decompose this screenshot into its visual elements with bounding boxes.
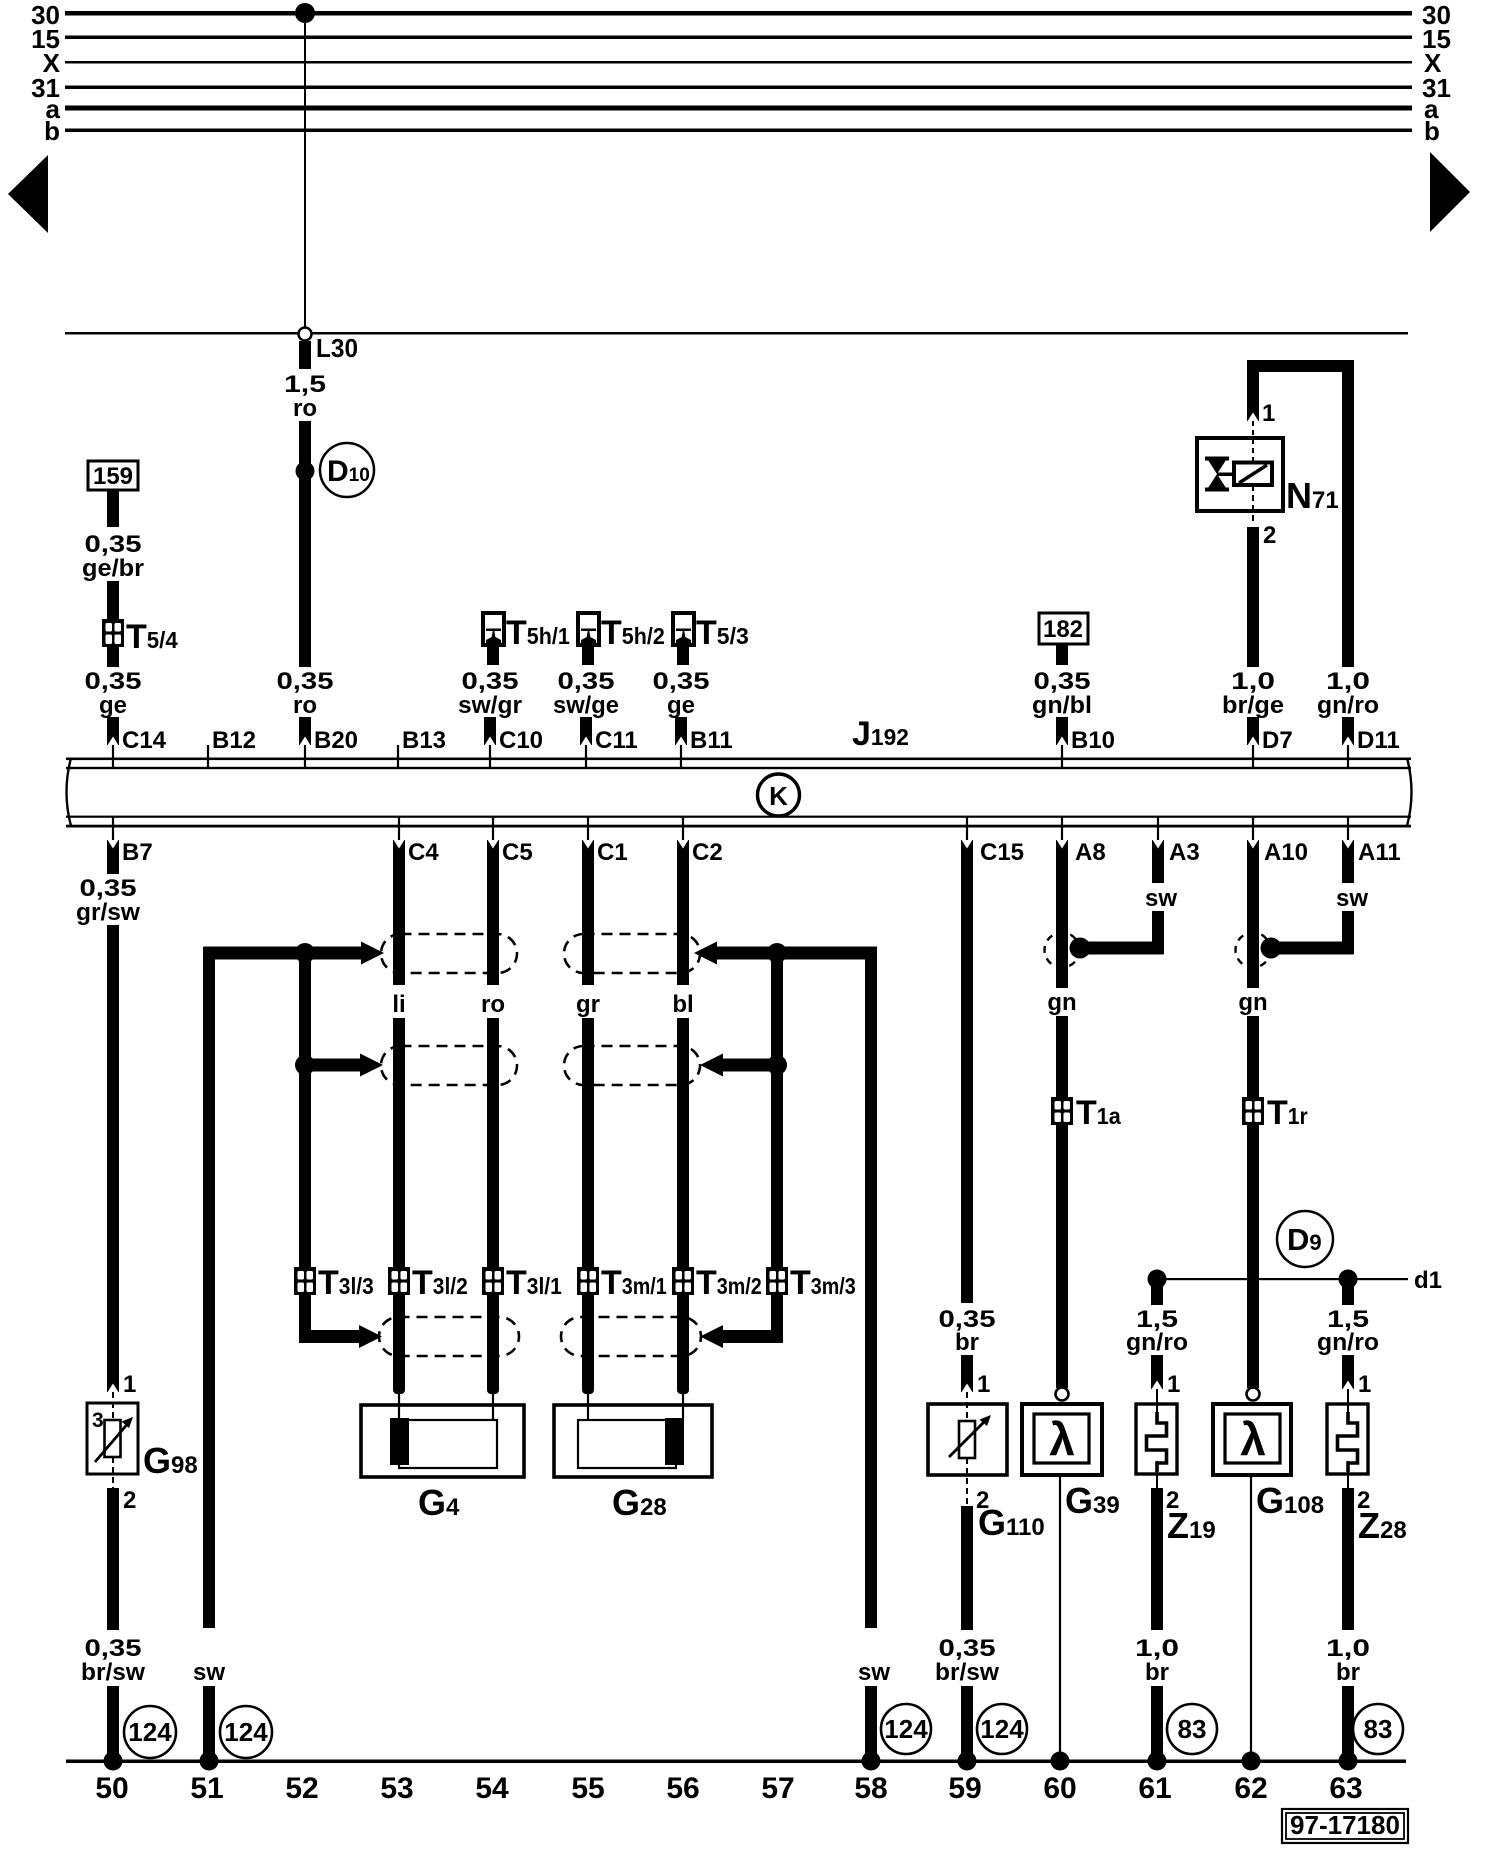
- J192 bar bottom line 1: [66, 816, 1411, 818]
- junction dot on bus 30: [295, 3, 315, 23]
- connector T1a: [1051, 1097, 1073, 1125]
- bus line b: [65, 129, 1412, 133]
- solder joint dot A8: [1070, 938, 1091, 959]
- wire T3l/3 elbow to twist row3: [299, 1295, 311, 1343]
- G98 variable resistor: [105, 1420, 121, 1457]
- pin tick B13: [397, 745, 399, 767]
- sender G110 box: [928, 1404, 1007, 1475]
- wire C1 lower: [582, 1018, 594, 1268]
- svg-text:A11: A11: [1358, 839, 1401, 866]
- ground code circle 83 (61): [1167, 1704, 1217, 1754]
- solenoid coil N71: [1234, 463, 1272, 486]
- wire into pin B20: [299, 717, 311, 745]
- wire 58 horizontal from twist: [714, 947, 877, 960]
- ground junction dot 60: [1051, 1752, 1070, 1771]
- twisted pair ellipse row2 left: [381, 1046, 517, 1085]
- bus line 31: [65, 86, 1412, 90]
- ground junction dot 59: [958, 1752, 977, 1771]
- twisted pair ellipse row1 left: [381, 934, 517, 973]
- svg-text:C10: C10: [499, 727, 543, 754]
- svg-text:A10: A10: [1264, 839, 1308, 866]
- svg-text:C2: C2: [692, 839, 723, 866]
- wire G110 to ground 59: [961, 1506, 973, 1630]
- svg-text:3: 3: [92, 1409, 104, 1432]
- svg-text:C4: C4: [408, 839, 439, 866]
- wire B7 upper: [107, 840, 119, 874]
- wire below T5/3: [677, 645, 689, 665]
- J192 bar bottom line 2: [66, 825, 1411, 828]
- svg-text:51: 51: [190, 1772, 223, 1805]
- pin line Z19 bottom: [1156, 1461, 1158, 1488]
- svg-text:52: 52: [285, 1772, 318, 1805]
- connector T1r: [1242, 1097, 1264, 1125]
- wire C1 end taper: [582, 1268, 594, 1394]
- pin tick A8: [1061, 817, 1063, 841]
- wire C15 down: [961, 840, 973, 1303]
- G28 inner element frame: [578, 1420, 676, 1468]
- pin tick C1: [587, 817, 589, 841]
- terminal circle D10: [320, 443, 374, 497]
- connector T3m/3: [766, 1267, 788, 1295]
- pin tick A11: [1347, 817, 1349, 841]
- wire into pin B11: [675, 717, 687, 745]
- wire 1.5 ro stub: [299, 341, 311, 369]
- svg-text:54: 54: [475, 1772, 509, 1805]
- ground junction dot 58: [862, 1752, 881, 1771]
- terminal K circle: [758, 774, 800, 816]
- svg-text:bl: bl: [672, 991, 693, 1018]
- svg-text:63: 63: [1329, 1772, 1362, 1805]
- svg-text:B13: B13: [402, 727, 446, 754]
- pin line into G28 right: [682, 1394, 684, 1420]
- connector T3l/3: [294, 1267, 316, 1295]
- svg-text:λ: λ: [1240, 1413, 1266, 1465]
- wire 58 gap mask: [864, 1630, 878, 1685]
- wire loop right vertical (gn/ro): [1342, 360, 1354, 667]
- wire from 159: [107, 490, 119, 527]
- wire into pin C10: [484, 717, 496, 745]
- connector T3m/1: [577, 1267, 599, 1295]
- svg-text:0,35: 0,35: [939, 1635, 996, 1662]
- solder joint dashed circle A10: [1236, 933, 1271, 968]
- wire d1 line: [1157, 1278, 1408, 1280]
- pin line G110 top: [966, 1392, 968, 1421]
- svg-text:L30: L30: [316, 333, 358, 363]
- pin line G110 bottom: [966, 1458, 968, 1505]
- wire G98 to ground 50: [107, 1488, 119, 1630]
- svg-text:B7: B7: [122, 839, 153, 866]
- wire L30 vertical thin: [304, 13, 306, 328]
- J192 bar right cap: [1407, 758, 1412, 826]
- wire br/ge below N71: [1247, 527, 1259, 667]
- svg-text:ro: ro: [293, 692, 317, 719]
- bus line a: [65, 106, 1412, 111]
- wire Z19 to ground 61: [1151, 1488, 1163, 1630]
- ground junction dot 62: [1242, 1752, 1261, 1771]
- svg-text:58: 58: [854, 1772, 887, 1805]
- node L30 terminal circle: [299, 328, 312, 341]
- bus line 15: [65, 36, 1412, 40]
- svg-text:1,0: 1,0: [1135, 1635, 1179, 1662]
- svg-text:0,35: 0,35: [653, 668, 710, 695]
- wire C1 upper: [582, 840, 594, 985]
- terminal 159 box: [88, 461, 138, 490]
- pin tick B12: [207, 745, 209, 767]
- svg-text:D7: D7: [1262, 727, 1293, 754]
- pin tick B10: [1061, 745, 1063, 767]
- svg-text:sw: sw: [858, 1659, 890, 1686]
- svg-text:0,35: 0,35: [1034, 668, 1091, 695]
- svg-text:83: 83: [1178, 1714, 1207, 1744]
- svg-text:0,35: 0,35: [85, 531, 142, 558]
- wire G108 to ground 62 thin: [1250, 1475, 1252, 1762]
- wire into pin C11: [580, 717, 592, 745]
- pin tick C11: [585, 745, 587, 767]
- pin tick C15: [966, 817, 968, 841]
- wire loop top horizontal: [1247, 360, 1354, 372]
- G28 element bar: [665, 1418, 684, 1465]
- pin tick B11: [680, 745, 682, 767]
- wire A8 down: [1056, 840, 1068, 988]
- wire 58 vertical: [865, 947, 877, 1628]
- svg-text:li: li: [392, 991, 405, 1018]
- svg-text:0,35: 0,35: [85, 1635, 142, 1662]
- twist arrow row1 right: [694, 942, 717, 965]
- svg-text:b: b: [44, 116, 60, 146]
- wire into pin D11: [1342, 717, 1354, 745]
- svg-text:ge: ge: [99, 692, 127, 719]
- svg-text:gn/bl: gn/bl: [1032, 692, 1092, 719]
- wire 51 vertical: [203, 947, 215, 1628]
- wire row2 right horizontal: [720, 1059, 777, 1072]
- pin tick C4: [398, 817, 400, 841]
- svg-text:B20: B20: [314, 727, 358, 754]
- J192 bar left cap: [67, 758, 72, 826]
- pin tick C2: [682, 817, 684, 841]
- svg-text:0,35: 0,35: [277, 668, 334, 695]
- wire ro down to D10: [299, 421, 311, 667]
- pin tick C14: [112, 745, 114, 767]
- wire G39 to ground 60 thin: [1059, 1475, 1061, 1762]
- J192 bar top line 1: [66, 758, 1411, 761]
- wire below T5/4: [107, 647, 119, 667]
- svg-text:59: 59: [948, 1772, 981, 1805]
- wire C5 upper: [487, 840, 499, 985]
- svg-text:gn: gn: [1238, 989, 1267, 1016]
- connector T3l/1: [482, 1267, 504, 1295]
- svg-text:sw: sw: [1336, 885, 1368, 912]
- J192 bar top line 2: [66, 767, 1411, 769]
- svg-text:sw/ge: sw/ge: [553, 692, 619, 719]
- wire Z19 down: [1151, 1355, 1163, 1389]
- twisted pair ellipse row3 left: [379, 1317, 519, 1356]
- junction dot row2 left: [295, 1055, 315, 1075]
- pin line dashed N71 top: [1252, 421, 1254, 464]
- twisted pair ellipse row2 right: [564, 1046, 700, 1085]
- connector T5/4: [102, 619, 124, 647]
- Z28 heater element: [1338, 1412, 1358, 1472]
- svg-text:C5: C5: [502, 839, 533, 866]
- twist arrow row1 left: [361, 942, 384, 965]
- connector T5h/2: [578, 613, 599, 645]
- wire Z28 down: [1342, 1355, 1354, 1389]
- wire A11 stub: [1342, 840, 1354, 883]
- svg-text:C14: C14: [122, 727, 167, 754]
- twist arrow row2 left: [360, 1054, 383, 1077]
- svg-text:97-17180: 97-17180: [1290, 1810, 1400, 1840]
- svg-text:C15: C15: [980, 839, 1024, 866]
- pin tick C10: [489, 745, 491, 767]
- wire T3l/3 vertical: [299, 953, 311, 1295]
- junction dot d1 right: [1339, 1270, 1358, 1289]
- svg-text:ro: ro: [481, 991, 505, 1018]
- twist arrow row2 right: [700, 1054, 723, 1077]
- wire 51 gap mask: [202, 1630, 216, 1685]
- junction dot d1 left: [1148, 1270, 1167, 1289]
- svg-text:gn/ro: gn/ro: [1317, 692, 1379, 719]
- wire C2 lower: [677, 1018, 689, 1268]
- svg-text:1: 1: [1167, 1371, 1180, 1398]
- svg-text:br: br: [1336, 1659, 1360, 1686]
- pin line into G28 left: [587, 1394, 589, 1420]
- svg-text:C1: C1: [597, 839, 628, 866]
- wire 50 final: [107, 1686, 119, 1762]
- svg-text:gn/ro: gn/ro: [1317, 1329, 1379, 1356]
- wire Z28 stub: [1342, 1279, 1354, 1305]
- svg-text:60: 60: [1043, 1772, 1076, 1805]
- lambda probe G108 box: [1213, 1404, 1291, 1475]
- pin line Z28 top: [1347, 1389, 1349, 1416]
- svg-text:K: K: [769, 781, 788, 811]
- svg-text:br/sw: br/sw: [935, 1659, 999, 1686]
- wire 58 final: [865, 1686, 877, 1762]
- svg-text:182: 182: [1043, 616, 1083, 643]
- solder joint dashed circle A8: [1045, 933, 1080, 968]
- svg-text:sw/gr: sw/gr: [458, 692, 522, 719]
- svg-text:d1: d1: [1414, 1267, 1442, 1294]
- svg-text:D11: D11: [1357, 727, 1400, 754]
- pin line Z28 bottom: [1347, 1461, 1349, 1488]
- wire C5 end taper: [487, 1268, 499, 1394]
- svg-text:53: 53: [380, 1772, 413, 1805]
- connector T3l/2: [388, 1267, 410, 1295]
- junction dot T3l/3 top: [295, 943, 315, 963]
- ground junction dot 63: [1339, 1752, 1358, 1771]
- terminal circle D9: [1277, 1211, 1333, 1267]
- wire C4 upper: [393, 840, 405, 985]
- wire C2 upper: [677, 840, 689, 985]
- wire to T5/4: [107, 581, 119, 620]
- svg-text:sw: sw: [1145, 885, 1177, 912]
- svg-text:A3: A3: [1169, 839, 1200, 866]
- lambda probe circle G108: [1247, 1388, 1260, 1401]
- svg-text:50: 50: [95, 1772, 128, 1805]
- twisted pair ellipse row1 right: [564, 934, 700, 973]
- wire below T5h/2: [582, 645, 594, 665]
- wire from 182: [1056, 644, 1068, 665]
- wire loop left vertical to N71 pin1: [1247, 360, 1259, 421]
- connector T5h/1: [483, 613, 504, 645]
- svg-text:A8: A8: [1075, 839, 1106, 866]
- svg-text:0,35: 0,35: [85, 668, 142, 695]
- svg-text:0,35: 0,35: [558, 668, 615, 695]
- junction dot row2 right: [767, 1055, 787, 1075]
- svg-text:1: 1: [977, 1371, 990, 1398]
- pin line into G4 right: [492, 1394, 494, 1420]
- pin line into G4 left: [398, 1394, 400, 1420]
- wire T3m/3 elbow to twist row3: [771, 1295, 783, 1343]
- svg-text:gn: gn: [1047, 989, 1076, 1016]
- svg-text:56: 56: [666, 1772, 699, 1805]
- svg-text:gr/sw: gr/sw: [76, 899, 140, 926]
- svg-text:b: b: [1424, 116, 1440, 146]
- svg-text:sw: sw: [193, 1659, 225, 1686]
- svg-text:1,0: 1,0: [1326, 668, 1370, 695]
- wire A11 elbow: [1342, 911, 1354, 954]
- svg-text:124: 124: [980, 1714, 1024, 1744]
- ground code circle 83 (63): [1353, 1704, 1403, 1754]
- svg-text:1: 1: [1358, 1371, 1371, 1398]
- svg-text:gn/ro: gn/ro: [1126, 1329, 1188, 1356]
- wire below T5h/1: [487, 645, 499, 665]
- wire into pin C14: [107, 717, 119, 745]
- heater Z19 box: [1136, 1404, 1177, 1474]
- bus line 30: [65, 11, 1412, 16]
- svg-text:62: 62: [1234, 1772, 1267, 1805]
- pin line G98 top: [112, 1392, 114, 1420]
- svg-text:B12: B12: [212, 727, 256, 754]
- svg-text:B10: B10: [1071, 727, 1115, 754]
- ground junction dot 61: [1148, 1752, 1167, 1771]
- terminal 182 box: [1039, 613, 1088, 644]
- svg-text:1,0: 1,0: [1326, 1635, 1370, 1662]
- svg-text:0,35: 0,35: [462, 668, 519, 695]
- diagram number box 97-17180: [1282, 1809, 1408, 1843]
- pin tick B20: [304, 745, 306, 767]
- valve N71 box: [1197, 438, 1283, 511]
- svg-text:1,0: 1,0: [1231, 668, 1275, 695]
- svg-text:br: br: [1145, 1659, 1169, 1686]
- pin line G98 bottom: [112, 1457, 114, 1488]
- pin tick B7: [112, 817, 114, 841]
- wire C4 lower: [393, 1018, 405, 1268]
- G4 element bar: [390, 1418, 409, 1465]
- wire 59 final: [961, 1686, 973, 1762]
- svg-text:1,5: 1,5: [284, 371, 326, 398]
- ground code circle 124 (50): [124, 1706, 176, 1758]
- twisted pair ellipse row3 right: [561, 1317, 701, 1356]
- pin tick D11: [1347, 745, 1349, 767]
- svg-text:br/sw: br/sw: [81, 1659, 145, 1686]
- svg-text:124: 124: [224, 1717, 268, 1747]
- ground code circle 124 (58): [881, 1704, 931, 1754]
- pin line N71 bottom: [1252, 485, 1254, 524]
- svg-text:159: 159: [93, 463, 133, 490]
- wire T3m/3 vertical: [771, 953, 783, 1295]
- svg-text:ge: ge: [667, 692, 695, 719]
- wire A3 elbow: [1152, 911, 1164, 954]
- ground code circle 124 (51): [220, 1706, 272, 1758]
- wire 51 horizontal to twist: [204, 947, 364, 960]
- svg-text:br: br: [955, 1329, 979, 1356]
- svg-text:B11: B11: [690, 727, 733, 754]
- heater Z28 box: [1327, 1404, 1368, 1474]
- wire row2 left horizontal: [305, 1059, 362, 1072]
- wire into pin D7: [1247, 717, 1259, 745]
- svg-text:br/ge: br/ge: [1222, 692, 1284, 719]
- wire C5 lower: [487, 1018, 499, 1268]
- svg-text:2: 2: [123, 1487, 136, 1514]
- separator line: [65, 332, 1408, 335]
- connector T3m/2: [672, 1267, 694, 1295]
- svg-text:57: 57: [761, 1772, 794, 1805]
- svg-text:55: 55: [571, 1772, 604, 1805]
- svg-text:ge/br: ge/br: [82, 555, 144, 582]
- wire 51 final: [203, 1686, 215, 1762]
- svg-text:61: 61: [1138, 1772, 1171, 1805]
- svg-text:λ: λ: [1049, 1413, 1075, 1465]
- ground code circle 124 (59): [977, 1704, 1027, 1754]
- Z19 heater element: [1147, 1412, 1167, 1472]
- G110 variable resistor: [959, 1421, 975, 1458]
- wire C15 to G110: [961, 1355, 973, 1392]
- svg-text:1: 1: [123, 1371, 136, 1398]
- pin tick A10: [1252, 817, 1254, 841]
- sensor G4 box: [361, 1405, 524, 1477]
- ground rail: [66, 1760, 1406, 1764]
- svg-text:2: 2: [1263, 522, 1276, 549]
- G4 inner element frame: [399, 1420, 497, 1468]
- svg-text:124: 124: [128, 1717, 172, 1747]
- wire Z28 to ground 63: [1342, 1488, 1354, 1630]
- sender G98 box: [87, 1403, 138, 1474]
- junction dot T3m/3 top: [767, 943, 787, 963]
- svg-text:C11: C11: [595, 727, 638, 754]
- page arrow right: [1430, 152, 1470, 232]
- pin line Z19 top: [1156, 1389, 1158, 1416]
- wire 61 final: [1151, 1686, 1163, 1762]
- svg-text:1: 1: [1262, 400, 1275, 427]
- pin tick D7: [1252, 745, 1254, 767]
- wire B7 to G98: [107, 925, 119, 1392]
- solder joint dot A10: [1261, 938, 1282, 959]
- valve symbol (bowtie): [1205, 457, 1236, 492]
- connector T5/3: [673, 613, 694, 645]
- sensor G28 box: [554, 1405, 712, 1477]
- bus line X: [65, 61, 1412, 64]
- ground junction dot 51: [200, 1752, 219, 1771]
- svg-text:124: 124: [884, 1714, 928, 1744]
- pin tick C5: [492, 817, 494, 841]
- svg-text:83: 83: [1364, 1714, 1393, 1744]
- svg-text:gr: gr: [576, 991, 600, 1018]
- wire C2 end taper: [677, 1268, 689, 1394]
- svg-text:ro: ro: [293, 395, 317, 422]
- lambda probe G39 box: [1022, 1404, 1102, 1475]
- lambda probe circle G39: [1056, 1388, 1069, 1401]
- wire Z19 stub: [1151, 1279, 1163, 1305]
- page arrow left: [8, 155, 48, 233]
- ground junction dot 50: [104, 1752, 123, 1771]
- wire C4 end taper: [393, 1268, 405, 1394]
- wire into pin B10: [1056, 717, 1068, 745]
- wire 63 final: [1342, 1686, 1354, 1762]
- wire A10 down: [1247, 840, 1259, 988]
- svg-text:0,35: 0,35: [80, 875, 137, 902]
- junction dot D10: [296, 462, 315, 481]
- wire A3 stub: [1152, 840, 1164, 883]
- pin tick A3: [1157, 817, 1159, 841]
